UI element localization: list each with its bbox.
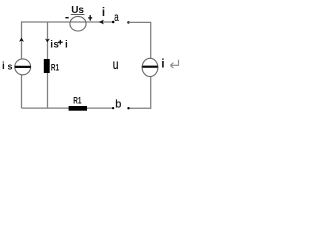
svg-text:u: u (113, 56, 119, 72)
current source i bar (142, 66, 158, 68)
paragraph return mark (170, 60, 178, 68)
node dot right bottom terminal (127, 107, 129, 109)
polarity plus (88, 17, 92, 19)
wire left vertical branch (21, 21, 23, 108)
svg-text:s: s (53, 39, 59, 50)
svg-text:i: i (161, 57, 164, 71)
current source Is circle (15, 59, 31, 75)
resistor R1 horizontal (filled rect) (69, 106, 87, 111)
voltage source Us circle (70, 16, 86, 31)
arrow i pointing left on top wire (99, 20, 104, 25)
wire right branch top (129, 22, 151, 58)
svg-text:i: i (65, 39, 68, 50)
svg-text:b: b (115, 98, 121, 110)
arrow down on middle branch (45, 39, 50, 43)
current source Is bar (15, 66, 31, 68)
svg-text:R1: R1 (51, 62, 59, 72)
node dot right top terminal (127, 21, 130, 24)
svg-text:i: i (102, 7, 105, 19)
resistor R1 vertical (filled rect) (44, 59, 50, 73)
node b dot (112, 107, 114, 109)
arrow up on left branch (19, 38, 24, 42)
svg-text:i: i (2, 61, 5, 72)
current source i ellipse (right) (142, 58, 158, 76)
node a dot (112, 21, 115, 24)
wire middle vertical branch (47, 22, 49, 108)
polarity minus (65, 17, 68, 19)
svg-text:a: a (114, 10, 119, 24)
wire right branch bottom (129, 76, 151, 108)
wire bottom horizontal (22, 107, 114, 109)
svg-text:s: s (8, 62, 13, 72)
svg-text:R1: R1 (73, 96, 81, 106)
wire top horizontal (22, 21, 114, 23)
